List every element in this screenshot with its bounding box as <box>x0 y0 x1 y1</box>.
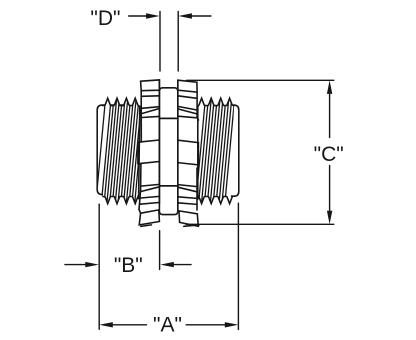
svg-text:"D": "D" <box>90 7 120 30</box>
svg-text:"B": "B" <box>114 254 143 277</box>
svg-text:"A": "A" <box>153 313 182 336</box>
svg-text:"C": "C" <box>314 143 344 166</box>
